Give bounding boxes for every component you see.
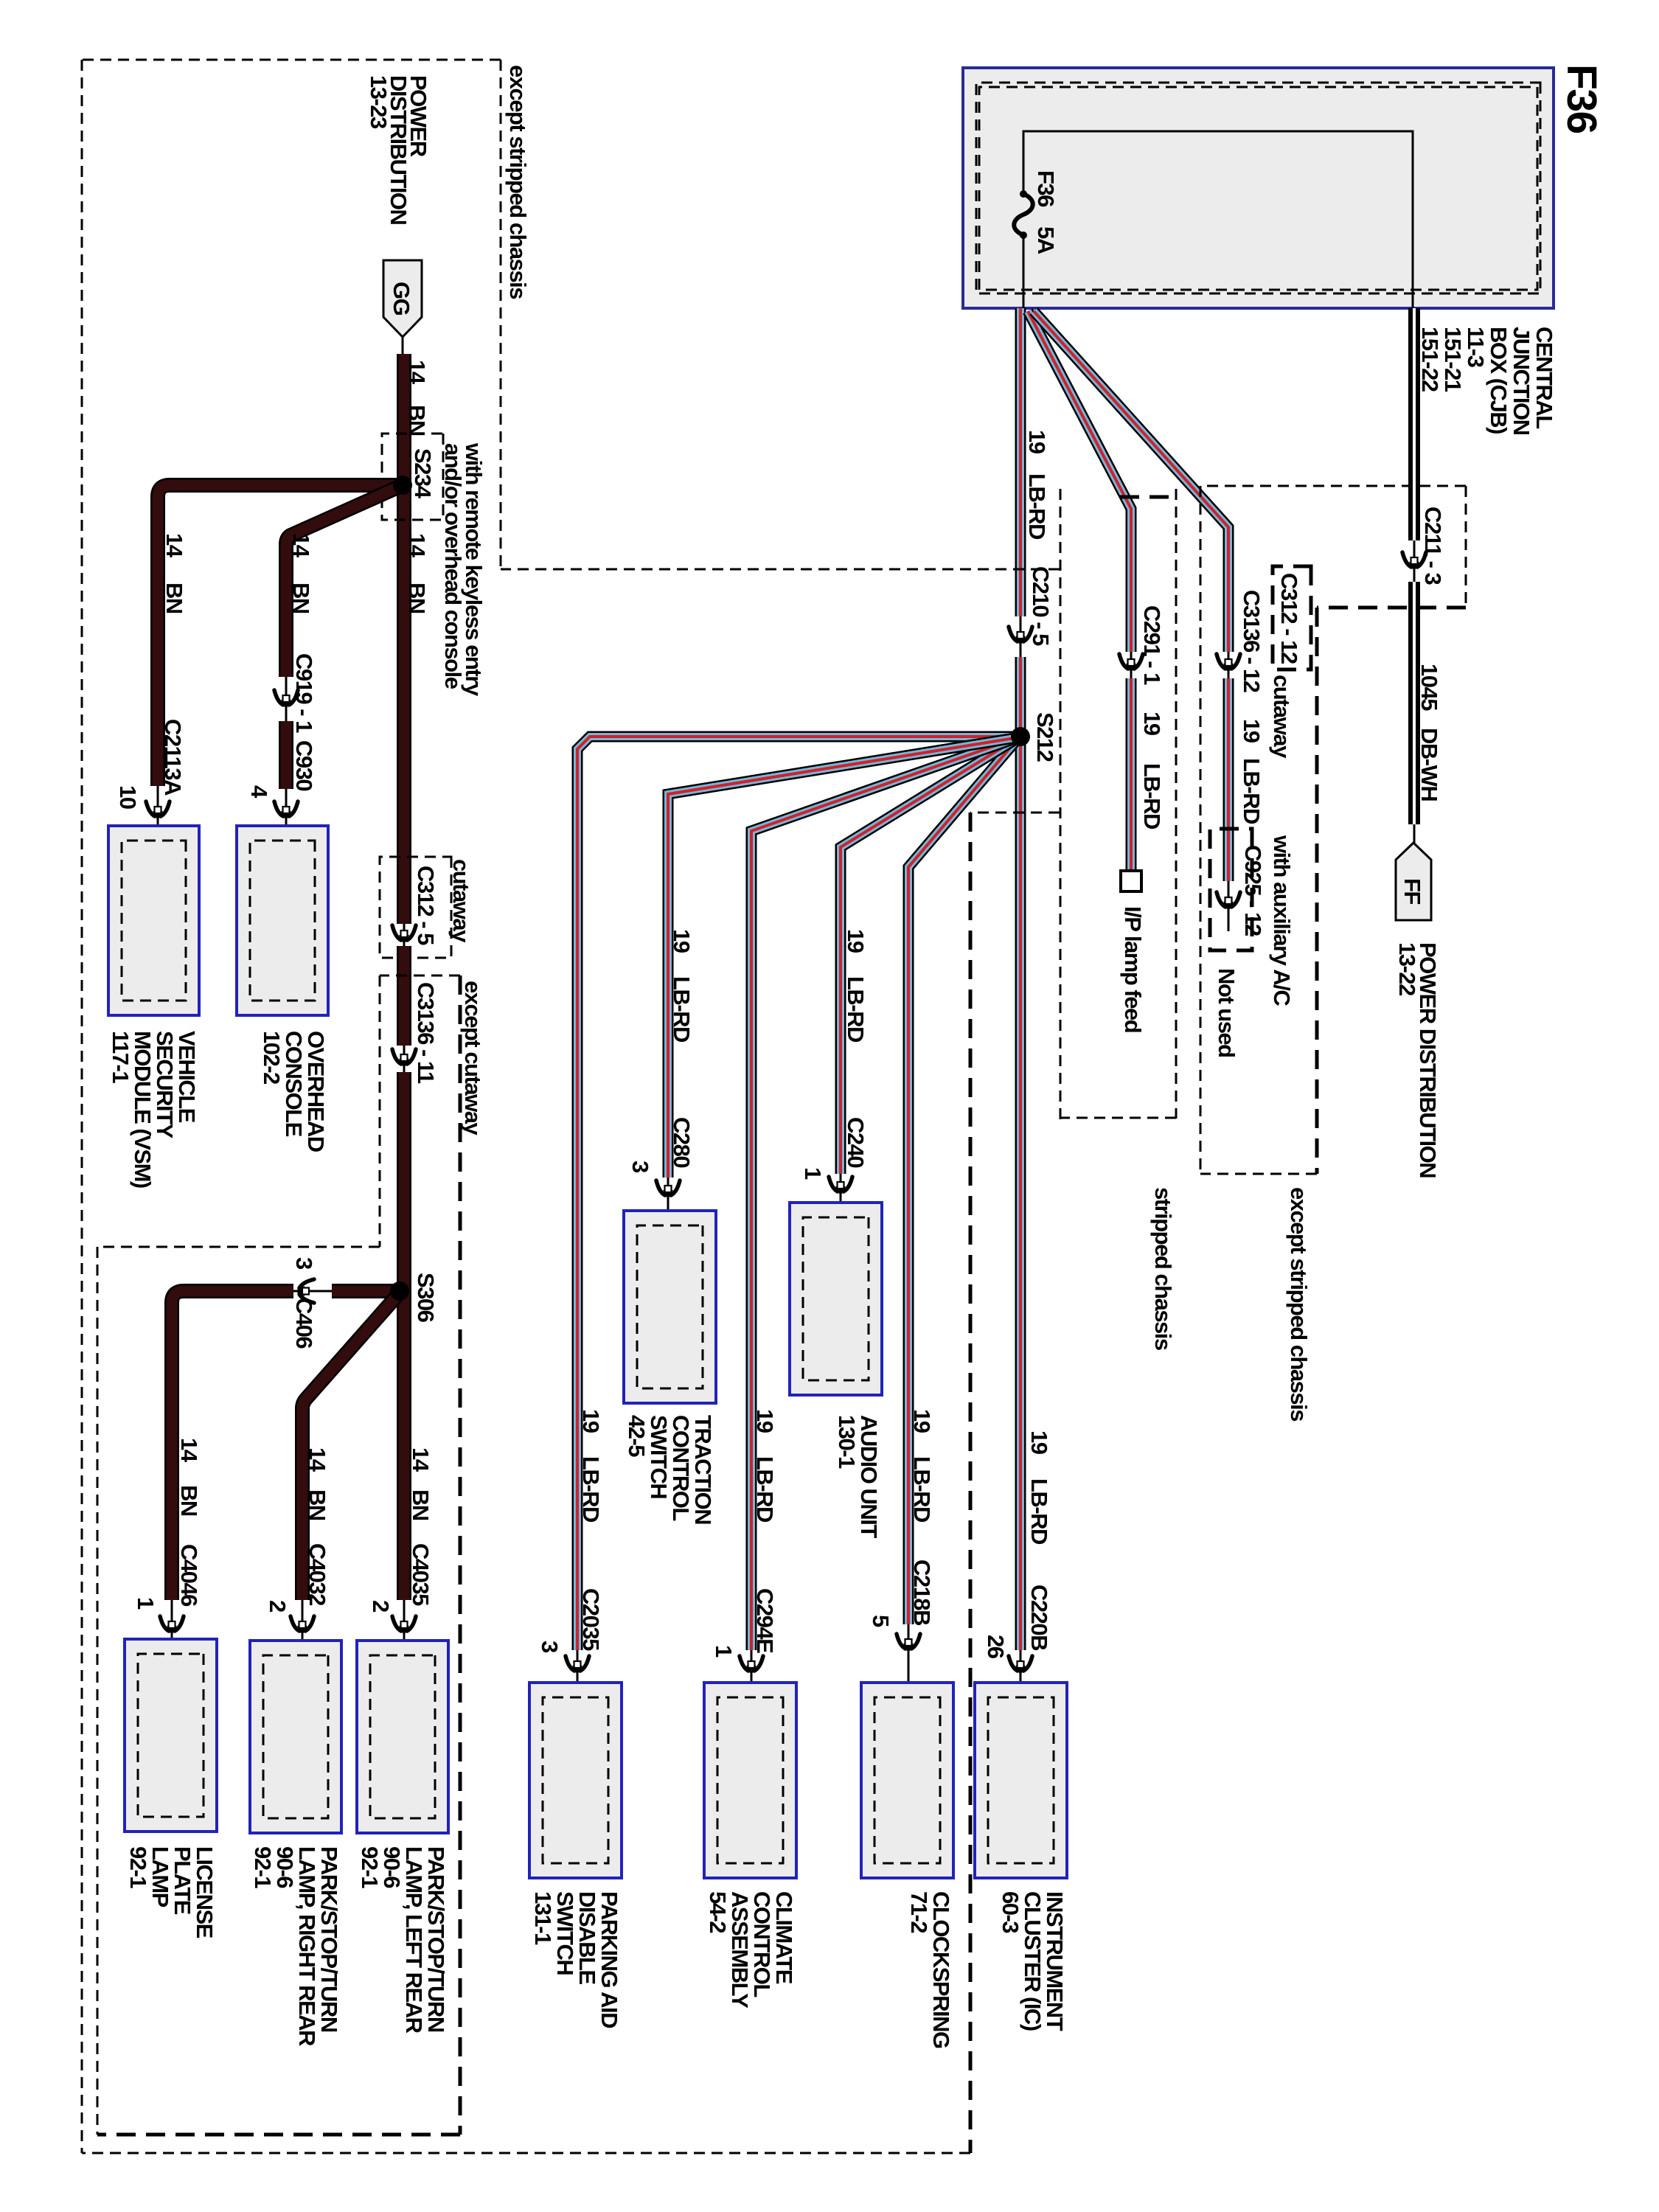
svg-text:19: 19 (1139, 712, 1165, 736)
wire link C2035 into box (577, 1650, 579, 1705)
wire 1045 DB-WH double line (1408, 308, 1420, 824)
svg-text:C291 - 1: C291 - 1 (1139, 605, 1165, 685)
svg-text:BN: BN (408, 1489, 434, 1520)
svg-text:F36: F36 (1558, 64, 1605, 133)
central junction box (CJB) outline (963, 68, 1554, 308)
svg-text:C280: C280 (669, 1117, 695, 1167)
svg-text:BOX (CJB): BOX (CJB) (1486, 327, 1512, 434)
connector C919-1 arrow (274, 690, 298, 709)
svg-text:LB-RD: LB-RD (669, 976, 695, 1043)
svg-text:19: 19 (669, 929, 695, 953)
svg-text:4: 4 (246, 785, 272, 799)
svg-text:BN: BN (161, 582, 187, 613)
svg-text:except cutaway: except cutaway (460, 981, 486, 1135)
svg-text:92-1: 92-1 (125, 1846, 151, 1888)
svg-text:130-1: 130-1 (834, 1415, 860, 1469)
svg-text:C4032: C4032 (305, 1543, 330, 1605)
wire 14 BN C919 to C930 (279, 721, 293, 789)
svg-text:CENTRAL: CENTRAL (1531, 327, 1557, 428)
svg-text:BN: BN (288, 582, 314, 613)
svg-text:C312 - 12: C312 - 12 (1276, 573, 1302, 664)
svg-text:C3136 - 11: C3136 - 11 (413, 982, 439, 1084)
splice S212 (1011, 727, 1030, 746)
wire C211 gap link (1413, 540, 1416, 582)
splice S306 (390, 1281, 409, 1301)
svg-text:cutaway: cutaway (1269, 675, 1295, 759)
fuse F36 5A (1014, 190, 1033, 239)
svg-text:C240: C240 (843, 1117, 869, 1167)
svg-text:2: 2 (368, 1600, 394, 1612)
svg-text:C2113A: C2113A (160, 719, 186, 796)
CJB inner dashed rect (979, 87, 1537, 290)
svg-text:S212: S212 (1032, 712, 1058, 762)
svg-text:C930: C930 (291, 740, 317, 790)
wire C291 gap link (1130, 652, 1133, 678)
wire 19 LB-RD C3136 to C925 (1223, 678, 1234, 881)
dashed stripped chassis box right (1060, 1117, 1176, 1119)
svg-text:F36: F36 (1033, 170, 1059, 207)
svg-text:C294E: C294E (752, 1588, 778, 1653)
connector C4046-1 arrow (160, 1616, 184, 1635)
dashed C211 box top (1465, 486, 1467, 608)
component OVERHEAD CONSOLE box (237, 826, 328, 1015)
svg-text:92-1: 92-1 (250, 1846, 276, 1888)
wire 19 LB-RD C210 to S212 (1015, 657, 1026, 735)
svg-text:26: 26 (983, 1635, 1009, 1659)
svg-text:C210 - 5: C210 - 5 (1028, 566, 1054, 646)
svg-text:LB-RD: LB-RD (752, 1456, 778, 1523)
svg-text:with auxiliary A/C: with auxiliary A/C (1269, 835, 1295, 1006)
wire link C2113A into box (157, 786, 159, 841)
svg-text:BN: BN (404, 405, 430, 436)
svg-text:3: 3 (291, 1257, 317, 1270)
wire 19 LB-RD S212 to audio unit (841, 737, 1019, 1174)
svg-text:151-21: 151-21 (1440, 327, 1466, 392)
connector C211-3 arrow (1402, 552, 1426, 571)
svg-text:JUNCTION: JUNCTION (1509, 327, 1534, 435)
dashed except stripped chassis top (1200, 486, 1202, 1174)
svg-text:13-23: 13-23 (366, 75, 392, 129)
wire 14 BN S306 to C406 (332, 1284, 401, 1298)
svg-text:GG: GG (389, 282, 414, 316)
wire 19 LB-RD S212 to clockspring (908, 737, 1019, 1624)
dashed with auxiliary A/C bottom (1315, 608, 1319, 1174)
svg-text:151-22: 151-22 (1417, 327, 1443, 392)
svg-text:BN: BN (305, 1489, 330, 1520)
component VEHICLE SECURITY MODULE box (108, 826, 199, 1015)
svg-text:3: 3 (627, 1161, 653, 1173)
svg-text:C919 - 1: C919 - 1 (291, 653, 317, 733)
svg-text:42-5: 42-5 (624, 1415, 650, 1457)
dashed C211 box left (1200, 485, 1466, 487)
wire fuse to CJB edge (1023, 236, 1025, 308)
svg-text:5: 5 (868, 1615, 894, 1627)
svg-text:14: 14 (408, 1447, 434, 1472)
connector C312-5 arrow (392, 925, 416, 945)
dashed option boundary long (459, 975, 462, 2135)
svg-text:19: 19 (1024, 430, 1050, 454)
dashed C925 box (1210, 829, 1252, 950)
wire C919 gap link (285, 677, 288, 721)
wire 14 BN S306 to C4032 (302, 1291, 401, 1600)
svg-text:19: 19 (909, 1409, 935, 1433)
connector C4035-2 arrow (392, 1616, 416, 1635)
connector C406-3 arrow (295, 1279, 314, 1303)
svg-text:LB-RD: LB-RD (1024, 473, 1050, 540)
wire link C4035 into box (403, 1600, 406, 1655)
component PARK/STOP/TURN LAMP RIGHT REAR box (250, 1641, 341, 1833)
component CLOCKSPRING box (861, 1683, 953, 1878)
wire 19 LB-RD feed CJB to C210 (1015, 308, 1026, 616)
dashed region top edge left (500, 60, 502, 569)
component TRACTION CONTROL SWITCH box (624, 1211, 716, 1403)
wire C3136 gap link (1228, 652, 1230, 678)
svg-text:except stripped chassis: except stripped chassis (1286, 1187, 1312, 1421)
connector C218B-5 arrow (897, 1634, 920, 1653)
wire 14 BN S234 to C919 (286, 485, 403, 677)
dashed jog (970, 812, 1060, 814)
wire 19 LB-RD S212 to climate control (751, 737, 1019, 1650)
wire link C280 into box (667, 1178, 669, 1231)
svg-text:13-22: 13-22 (1394, 942, 1420, 995)
svg-text:92-1: 92-1 (357, 1846, 383, 1888)
svg-text:and/or overhead console: and/or overhead console (440, 443, 466, 689)
svg-text:DB-WH: DB-WH (1416, 728, 1442, 801)
dashed option boundary right (97, 2133, 460, 2137)
C312-5 dashed box (380, 857, 451, 958)
wire C3136-11 gap link (403, 1046, 406, 1072)
svg-text:14: 14 (161, 533, 187, 558)
svg-text:BN: BN (404, 582, 430, 613)
svg-text:C3136 - 12: C3136 - 12 (1239, 590, 1265, 692)
svg-text:14: 14 (404, 533, 430, 558)
dashed stripped chassis box left thick (1110, 495, 1169, 499)
dashed stripped chassis box top (1175, 489, 1178, 1119)
connector C2113A-10 arrow (146, 801, 170, 821)
dashed except stripped chassis right (1200, 1173, 1317, 1175)
flag GG ground (383, 260, 422, 337)
svg-text:stripped chassis: stripped chassis (1150, 1187, 1176, 1350)
wire 19 LB-RD S212 to parking aid disable switch (577, 737, 1019, 1650)
dashed boundary C210/stripped chassis top (1060, 489, 1062, 1120)
wire 19 LB-RD to C291 (1028, 311, 1131, 652)
svg-text:102-2: 102-2 (259, 1031, 285, 1084)
svg-text:Not used: Not used (1214, 968, 1239, 1057)
wire 19 LB-RD S212 to instrument cluster (1015, 739, 1026, 1650)
svg-text:LB-RD: LB-RD (909, 1456, 935, 1523)
svg-text:60-3: 60-3 (998, 1891, 1023, 1933)
wire 19 LB-RD S212 to traction control switch (668, 737, 1019, 1178)
svg-text:LB-RD: LB-RD (843, 976, 869, 1043)
wire CJB internal feed (1023, 131, 1413, 308)
dashed region riser (501, 568, 1060, 571)
component PARKING AID DISABLE SWITCH box (529, 1683, 622, 1878)
connector C294E-1 arrow (740, 1656, 763, 1675)
wire link C218B into box (908, 1624, 910, 1705)
svg-text:LB-RD: LB-RD (1139, 763, 1165, 829)
connector C4032-2 arrow (291, 1616, 314, 1635)
I/P lamp feed load (1121, 871, 1141, 891)
wire C406 gap link (293, 1290, 332, 1293)
component CLIMATE CONTROL ASSEMBLY box (704, 1683, 796, 1878)
dashed region bottom inner (97, 1247, 99, 2135)
svg-text:1045: 1045 (1416, 664, 1442, 711)
svg-text:14: 14 (404, 360, 430, 385)
S234 dashed box (382, 434, 443, 520)
component INSTRUMENT CLUSTER box (975, 1683, 1067, 1878)
svg-text:FF: FF (1399, 878, 1425, 904)
svg-text:C2035: C2035 (578, 1588, 604, 1651)
wire link to FF flag (1413, 824, 1416, 848)
svg-text:54-2: 54-2 (705, 1891, 731, 1933)
svg-text:19: 19 (1239, 719, 1265, 743)
dashed region mid boundary (969, 813, 973, 2153)
wire link C294E into box (751, 1650, 753, 1705)
svg-text:19: 19 (752, 1409, 778, 1433)
connector C2035-3 arrow (566, 1656, 589, 1675)
wire link C930 into box (285, 789, 288, 841)
wire 19 LB-RD to C3136-12 (1034, 311, 1228, 652)
svg-text:S306: S306 (413, 1273, 439, 1323)
wire C210 gap link (1020, 616, 1022, 657)
svg-text:LB-RD: LB-RD (1026, 1478, 1052, 1545)
svg-text:C211 - 3: C211 - 3 (1420, 507, 1446, 585)
svg-text:C312 - 5: C312 - 5 (413, 866, 439, 945)
dashed C312-12 cutaway box (1273, 566, 1311, 669)
wire C312-5 gap link (403, 924, 406, 946)
svg-text:19: 19 (843, 929, 869, 953)
connector C280-3 arrow (656, 1180, 680, 1200)
svg-text:5A: 5A (1033, 226, 1059, 254)
svg-text:19: 19 (1026, 1430, 1052, 1455)
dashed region left edge (82, 59, 501, 61)
svg-text:C4035: C4035 (408, 1543, 434, 1606)
wire C925 gap link (1228, 881, 1230, 931)
svg-text:10: 10 (115, 785, 141, 809)
svg-text:14: 14 (288, 533, 314, 558)
connector C220B-26 arrow (1009, 1656, 1032, 1675)
connector C925-12 arrow (1217, 892, 1240, 911)
svg-text:14: 14 (305, 1447, 330, 1472)
connector C930-4 arrow (274, 801, 298, 821)
wire 19 LB-RD C291 to I/P lamp feed (1126, 678, 1137, 869)
wire 14 BN GG to C312-5 (397, 354, 411, 924)
dashed region right edge (82, 2152, 970, 2154)
svg-text:19: 19 (578, 1409, 604, 1433)
connector C240-1 arrow (829, 1177, 852, 1196)
svg-text:71-2: 71-2 (906, 1891, 932, 1933)
dashed region bottom edge (81, 60, 83, 2153)
svg-text:11-3: 11-3 (1463, 327, 1489, 368)
svg-text:117-1: 117-1 (108, 1031, 133, 1083)
wire 14 BN C312-5 to C3136-11 (397, 946, 411, 1046)
svg-text:C218B: C218B (909, 1559, 935, 1625)
wire link GG flag (402, 337, 404, 357)
wire 14 BN C406 to C4046 (172, 1291, 293, 1600)
component PARK/STOP/TURN LAMP LEFT REAR box (357, 1641, 448, 1833)
svg-text:C406: C406 (291, 1298, 317, 1349)
svg-text:2: 2 (265, 1600, 291, 1612)
svg-text:S234: S234 (410, 448, 436, 499)
dashed region edge (97, 1246, 380, 1248)
svg-text:except stripped chassis: except stripped chassis (505, 65, 531, 299)
svg-text:3: 3 (537, 1641, 563, 1653)
svg-text:1: 1 (133, 1597, 159, 1610)
wire link C4046 into box (171, 1600, 173, 1655)
svg-text:1: 1 (800, 1167, 826, 1180)
wire 14 BN S234 to C2113A (158, 485, 401, 786)
svg-text:C220B: C220B (1026, 1585, 1052, 1650)
wire link C220B into box (1020, 1650, 1022, 1705)
svg-text:BN: BN (176, 1485, 202, 1516)
dashed with auxiliary A/C left (1317, 606, 1466, 610)
wire link C240 into box (840, 1174, 842, 1224)
flag FF power distribution (1396, 843, 1431, 920)
dashed except cutaway box left (380, 975, 460, 977)
svg-text:131-1: 131-1 (530, 1891, 556, 1945)
svg-text:14: 14 (176, 1438, 202, 1463)
wire link C4032 into box (302, 1600, 304, 1655)
connector C3136-12 arrow (1217, 654, 1240, 673)
component LICENSE PLATE LAMP box (125, 1639, 217, 1832)
component AUDIO UNIT box (790, 1203, 882, 1395)
svg-text:1: 1 (711, 1645, 737, 1658)
svg-text:I/P lamp feed: I/P lamp feed (1120, 906, 1146, 1032)
connector C210-5 arrow (1009, 627, 1032, 646)
connector C3136-11 arrow (392, 1049, 416, 1068)
svg-text:LB-RD: LB-RD (1239, 758, 1265, 824)
connector C291-1 arrow (1119, 654, 1143, 673)
wire 14 BN C3136-11 to C4035 (397, 1072, 411, 1600)
svg-text:C4046: C4046 (176, 1544, 202, 1607)
dashed except cutaway box bottom (379, 975, 381, 1247)
splice S234 (393, 476, 412, 495)
svg-text:LB-RD: LB-RD (578, 1456, 604, 1523)
